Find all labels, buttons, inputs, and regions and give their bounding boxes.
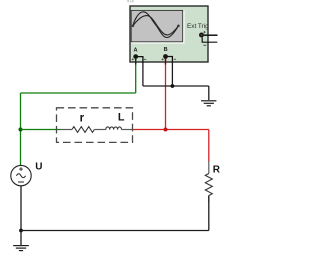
svg-text:Ext Trig: Ext Trig	[187, 23, 209, 30]
terminal B plus mark	[162, 58, 164, 60]
wire: pin dark overlay B	[165, 58, 167, 65]
AC source U	[11, 165, 31, 185]
terminal A stub to minus pin	[136, 57, 143, 63]
wire: down to scope ground	[208, 86, 210, 100]
wire: source bottom down	[20, 186, 22, 231]
wire: black bus to scope ground	[143, 85, 209, 87]
lead into resistor r	[61, 129, 73, 131]
Ext Trig minus pin stub	[202, 38, 217, 43]
ground (source)	[13, 246, 29, 251]
resistor R bottom lead	[208, 196, 210, 203]
svg-text:L: L	[118, 112, 125, 124]
inductor L humps	[106, 127, 122, 130]
cropped label remnant above scope	[127, 0, 133, 2]
oscilloscope screen	[131, 10, 184, 43]
terminal B minus mark	[174, 58, 176, 61]
wire: pin dark overlay A	[135, 58, 137, 65]
svg-text:U: U	[35, 162, 42, 173]
wire: A+ green vertical from scope	[135, 58, 137, 93]
wire: B+ red vertical from scope	[165, 58, 167, 130]
resistor r zigzag	[72, 127, 94, 133]
terminal A minus mark	[144, 58, 146, 61]
Ext Trig minus mark	[203, 44, 206, 47]
Ext Trig plus pin stub	[204, 34, 218, 36]
wire: up to resistor R bottom	[208, 196, 210, 231]
node: green junction	[19, 128, 23, 132]
resistor R zigzag	[205, 174, 212, 196]
wire: B- black down	[171, 62, 173, 86]
Ext Trig terminal	[199, 33, 204, 38]
ground (scope)	[201, 101, 216, 106]
terminal B stub to minus pin	[166, 57, 173, 64]
wire: green branch to r-L box	[21, 129, 61, 131]
wire: green horizontal to left rail	[21, 92, 136, 94]
wire: red down to resistor R	[208, 130, 210, 162]
waveform trace 1	[133, 12, 179, 38]
oscilloscope XSC1 body	[130, 6, 208, 62]
svg-text:R: R	[213, 164, 221, 175]
node: black junction B-	[171, 84, 175, 88]
wire: bottom bus	[21, 230, 209, 232]
wire: red from box to R corner	[133, 129, 209, 131]
terminal A	[133, 54, 138, 59]
terminal A plus mark	[132, 58, 134, 60]
terminal B	[163, 54, 168, 59]
wire: green left rail down to source	[20, 93, 22, 166]
svg-text:A: A	[134, 48, 138, 54]
dashed box around r and L	[57, 108, 133, 143]
lead between r and L	[94, 129, 106, 131]
waveform trace 2	[133, 16, 179, 35]
trace endpoint dots	[132, 25, 135, 28]
svg-text:B: B	[164, 47, 168, 53]
node: red junction	[164, 128, 168, 132]
wire: ground stub below junction	[20, 231, 22, 246]
node: bottom junction	[19, 229, 23, 233]
wire: A- black down	[142, 62, 144, 86]
lead out of inductor	[122, 129, 133, 131]
resistor R top lead	[208, 161, 210, 174]
svg-text:r: r	[80, 112, 85, 124]
